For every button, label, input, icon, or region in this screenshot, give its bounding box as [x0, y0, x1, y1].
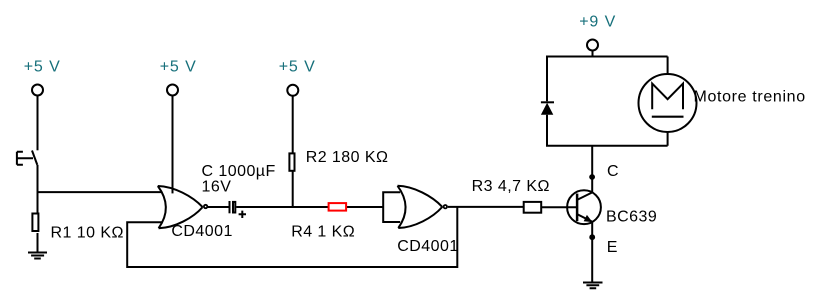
svg-text:R2 180 KΩ: R2 180 KΩ [306, 149, 389, 166]
svg-text:R3 4,7 KΩ: R3 4,7 KΩ [472, 178, 550, 195]
svg-text:16V: 16V [202, 179, 232, 196]
svg-text:R1 10 KΩ: R1 10 KΩ [51, 224, 124, 241]
svg-text:R4 1 KΩ: R4 1 KΩ [291, 224, 355, 241]
svg-text:+5 V: +5 V [160, 58, 197, 75]
svg-text:+9 V: +9 V [579, 14, 616, 31]
svg-text:+5 V: +5 V [279, 58, 316, 75]
svg-text:CD4001: CD4001 [397, 238, 458, 255]
svg-text:Motore trenino: Motore trenino [694, 88, 806, 105]
svg-text:E: E [607, 239, 618, 256]
svg-text:BC639: BC639 [606, 209, 657, 226]
svg-text:C 1000µF: C 1000µF [202, 163, 276, 180]
svg-text:+5 V: +5 V [24, 58, 61, 75]
svg-text:CD4001: CD4001 [171, 223, 232, 240]
svg-text:C: C [607, 163, 619, 180]
